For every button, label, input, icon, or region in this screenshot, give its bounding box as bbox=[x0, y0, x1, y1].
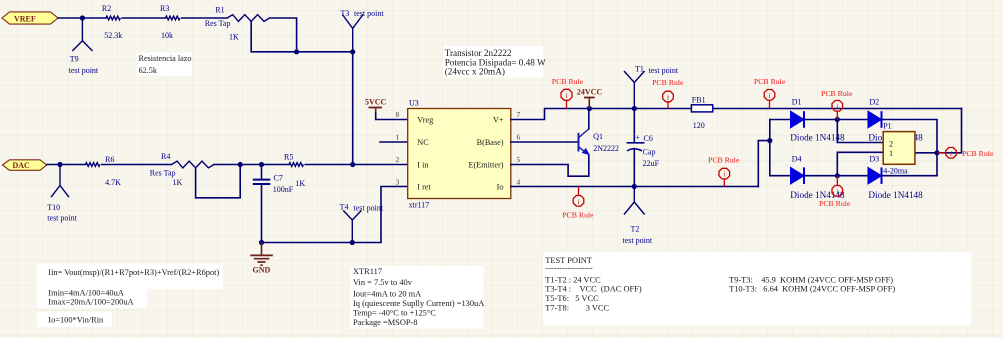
wire R5 to pin2 bbox=[305, 164, 408, 166]
svg-text:test point: test point bbox=[354, 9, 384, 18]
svg-text:test point: test point bbox=[623, 236, 653, 245]
svg-text:PCB Rule: PCB Rule bbox=[819, 199, 851, 208]
potentiometer R4 Res Tap bbox=[150, 152, 214, 187]
connector P1 4-20ma bbox=[883, 122, 915, 176]
potentiometer R1 Res Tap bbox=[205, 6, 270, 42]
test point T10 bbox=[47, 165, 77, 223]
svg-text:3: 3 bbox=[395, 177, 399, 186]
svg-text:D2: D2 bbox=[869, 97, 879, 106]
svg-text:Res Tap: Res Tap bbox=[150, 168, 176, 177]
svg-text:I in: I in bbox=[417, 160, 428, 169]
wire R2 to R3 bbox=[122, 17, 165, 19]
annotation TEST POINT block bbox=[543, 252, 971, 325]
svg-text:R6: R6 bbox=[105, 155, 114, 164]
svg-text:U3: U3 bbox=[409, 98, 419, 107]
svg-text:i: i bbox=[566, 92, 568, 100]
svg-text:Package =MSOP-8: Package =MSOP-8 bbox=[353, 318, 418, 327]
svg-text:test point: test point bbox=[69, 66, 99, 75]
wire bridge anode vertical bbox=[769, 120, 771, 176]
power 5VCC bbox=[365, 97, 408, 119]
wire Io pin4 bbox=[511, 186, 759, 188]
svg-text:Q1: Q1 bbox=[593, 132, 603, 141]
directive PCB Rule bridge top bbox=[821, 89, 853, 120]
resistor R3 bbox=[160, 4, 180, 40]
svg-text:PCB Rule: PCB Rule bbox=[754, 77, 786, 86]
svg-text:1: 1 bbox=[889, 149, 893, 158]
node bridge bottom mid junction bbox=[835, 173, 840, 178]
directive PCB Rule on Io wire bbox=[562, 187, 594, 220]
svg-text:T2: T2 bbox=[631, 224, 640, 233]
node T3 junction bbox=[350, 49, 355, 54]
svg-text:100nF: 100nF bbox=[273, 185, 294, 194]
svg-text:Vreg: Vreg bbox=[417, 115, 433, 124]
svg-text:GND: GND bbox=[253, 266, 271, 275]
svg-text:2: 2 bbox=[889, 140, 893, 149]
transistor Q1 2N2222 bbox=[579, 109, 619, 156]
svg-text:Io: Io bbox=[497, 182, 504, 191]
node 24VCC junction bbox=[587, 106, 592, 111]
svg-text:Temp= -40°C to +125°C: Temp= -40°C to +125°C bbox=[353, 309, 436, 318]
node D2/D3 cathode junction bbox=[934, 150, 939, 155]
svg-text:Res Tap: Res Tap bbox=[205, 19, 231, 28]
svg-text:i: i bbox=[667, 94, 669, 102]
svg-text:C6: C6 bbox=[644, 134, 653, 143]
node Io/C6/T2 junction bbox=[632, 184, 637, 189]
svg-text:i: i bbox=[578, 198, 580, 206]
svg-text:i: i bbox=[769, 92, 771, 100]
svg-text:T1: T1 bbox=[635, 65, 644, 74]
svg-text:T7-T8: 3 VCC: T7-T8: 3 VCC bbox=[545, 303, 609, 312]
wire ground rail bbox=[262, 187, 409, 243]
node R4 wrap junction bbox=[238, 162, 243, 167]
svg-text:Io=100*Vin/Rin: Io=100*Vin/Rin bbox=[48, 316, 104, 325]
wire D4 to D3 bbox=[804, 175, 868, 177]
svg-text:Iout=4mA to 20 mA: Iout=4mA to 20 mA bbox=[353, 289, 421, 298]
wire VREF to R2 bbox=[58, 17, 106, 19]
wire emitter pin5 bbox=[511, 156, 589, 177]
svg-text:test point: test point bbox=[649, 66, 679, 75]
node ground rail T4 bbox=[350, 240, 355, 245]
test point T4 bbox=[340, 202, 384, 242]
test point T9 bbox=[69, 18, 99, 75]
port DAC bbox=[3, 160, 47, 171]
svg-text:T3-T4 : VCC (DAC OFF): T3-T4 : VCC (DAC OFF) bbox=[545, 285, 642, 294]
svg-text:R5: R5 bbox=[284, 152, 293, 161]
svg-text:Vin = 7.5v to 40v: Vin = 7.5v to 40v bbox=[353, 278, 413, 287]
node C7 top junction bbox=[259, 162, 264, 167]
svg-text:T10: T10 bbox=[47, 203, 60, 212]
wire DAC to R6 bbox=[47, 164, 86, 166]
svg-text:test point: test point bbox=[47, 214, 77, 223]
svg-text:1K: 1K bbox=[229, 32, 239, 41]
wire Io riser to bridge bbox=[758, 141, 770, 187]
svg-text:6: 6 bbox=[517, 132, 521, 141]
svg-text:1: 1 bbox=[395, 132, 399, 141]
annotation XTR117 spec block bbox=[350, 266, 484, 329]
directive PCB Rule on rail after FB1 bbox=[754, 77, 786, 109]
wire R1 tap loop bbox=[251, 18, 296, 52]
resistor R5 bbox=[284, 152, 305, 188]
svg-text:T1-T2 : 24 VCC: T1-T2 : 24 VCC bbox=[545, 275, 601, 284]
svg-text:+: + bbox=[635, 133, 640, 142]
diode D4 1N4148 bbox=[770, 154, 845, 199]
node ground rail C7 bbox=[259, 240, 264, 245]
capacitor C6 22uF bbox=[627, 109, 660, 187]
node bridge anode junction bbox=[767, 138, 772, 143]
svg-text:XTR117: XTR117 bbox=[353, 267, 382, 276]
svg-text:D1: D1 bbox=[792, 97, 802, 106]
svg-text:Resistencia lazo: Resistencia lazo bbox=[139, 54, 192, 63]
wire R4 to C7/R5 bbox=[240, 164, 289, 166]
directive PCB Rule bridge bottom bbox=[819, 176, 851, 209]
wire R6 to R4 bbox=[102, 164, 172, 166]
svg-text:C7: C7 bbox=[274, 173, 283, 182]
svg-text:PCB Rule: PCB Rule bbox=[562, 210, 594, 219]
node VREF/T9 junction bbox=[80, 15, 85, 20]
svg-text:(24vcc x 20mA): (24vcc x 20mA) bbox=[445, 67, 505, 77]
svg-text:R4: R4 bbox=[161, 152, 170, 161]
capacitor C7 bbox=[253, 165, 294, 243]
wire summing vertical bbox=[352, 52, 354, 165]
node DAC/T10 junction bbox=[57, 162, 62, 167]
diode D2 1N4148 bbox=[868, 97, 923, 142]
svg-text:V+: V+ bbox=[493, 115, 504, 124]
svg-text:Diode 1N4148: Diode 1N4148 bbox=[868, 190, 923, 200]
svg-text:PCB Rule: PCB Rule bbox=[652, 78, 684, 87]
op-amp U3 xtr117 bbox=[395, 98, 520, 209]
svg-text:R1: R1 bbox=[215, 6, 224, 15]
diode D3 1N4148 bbox=[868, 154, 923, 199]
wire base pin6 bbox=[511, 141, 579, 143]
svg-text:P1: P1 bbox=[883, 122, 891, 131]
svg-text:5VCC: 5VCC bbox=[365, 97, 387, 106]
svg-text:PCB Rule: PCB Rule bbox=[821, 89, 853, 98]
svg-text:PCB Rule: PCB Rule bbox=[708, 155, 740, 164]
svg-text:4: 4 bbox=[517, 177, 521, 186]
test point T1 bbox=[624, 65, 679, 109]
svg-text:DAC: DAC bbox=[13, 161, 31, 170]
svg-text:R3: R3 bbox=[160, 4, 169, 13]
svg-text:R2: R2 bbox=[102, 4, 111, 13]
node T1 junction bbox=[632, 106, 637, 111]
svg-text:7: 7 bbox=[517, 110, 521, 119]
svg-text:T4: T4 bbox=[340, 202, 349, 211]
wire bridge bottom mid to P1 pin1 bbox=[837, 152, 883, 175]
svg-text:FB1: FB1 bbox=[692, 95, 706, 104]
test point T3 bbox=[341, 9, 385, 52]
svg-text:Imax=20mA/100=200uA: Imax=20mA/100=200uA bbox=[48, 298, 133, 307]
resistor R6 bbox=[86, 155, 122, 187]
svg-text:2: 2 bbox=[395, 155, 399, 164]
directive PCB Rule on Io wire mid bbox=[708, 155, 740, 186]
svg-text:I ret: I ret bbox=[417, 182, 431, 191]
svg-text:1K: 1K bbox=[295, 179, 305, 188]
annotation formulas block bbox=[37, 264, 223, 328]
port VREF bbox=[2, 12, 58, 24]
svg-text:T5-T6: 5 VCC: T5-T6: 5 VCC bbox=[545, 294, 599, 303]
diode D1 1N4148 bbox=[770, 97, 845, 142]
wire R3 to R1 bbox=[182, 17, 227, 19]
wire pin1 NC stub bbox=[380, 141, 408, 143]
svg-text:2N2222: 2N2222 bbox=[593, 144, 619, 153]
svg-text:5: 5 bbox=[517, 155, 521, 164]
svg-text:E(Emitter): E(Emitter) bbox=[468, 160, 503, 169]
node R1 wrap junction bbox=[294, 49, 299, 54]
directive PCB Rule right bbox=[937, 148, 994, 159]
svg-text:i: i bbox=[723, 171, 725, 179]
svg-text:B(Base): B(Base) bbox=[477, 138, 504, 147]
svg-text:Cap: Cap bbox=[643, 147, 656, 156]
svg-text:D3: D3 bbox=[869, 154, 879, 163]
wire D2 cathode down bbox=[882, 120, 938, 176]
wire rail right corner to P1 bbox=[915, 109, 962, 153]
svg-text:i: i bbox=[836, 188, 838, 196]
annotation Resistencia lazo bbox=[137, 53, 193, 76]
svg-text:Iq (quiescente Suplly Current): Iq (quiescente Suplly Current) =130uA bbox=[353, 299, 484, 308]
wire R4 tap loop bbox=[196, 165, 241, 198]
ferrite bead FB1 bbox=[691, 95, 712, 130]
wire rail to T3 bbox=[297, 51, 353, 53]
wire D3 cathode bbox=[882, 175, 938, 177]
test point T2 bbox=[623, 187, 653, 246]
node summing junction pin2 bbox=[350, 162, 355, 167]
svg-text:T3: T3 bbox=[341, 9, 350, 18]
svg-text:T9: T9 bbox=[70, 54, 79, 63]
svg-text:xtr117: xtr117 bbox=[409, 200, 430, 209]
svg-text:NC: NC bbox=[417, 138, 429, 147]
node bridge top mid junction bbox=[835, 117, 840, 122]
annotation transistor note bbox=[443, 46, 546, 78]
svg-text:PCB Rule: PCB Rule bbox=[962, 149, 994, 158]
svg-text:i: i bbox=[950, 150, 952, 158]
svg-text:Iin= Vout(msp)/(R1+R7pot+R3)+V: Iin= Vout(msp)/(R1+R7pot+R3)+Vref/(R2+R6… bbox=[48, 268, 219, 277]
svg-text:VREF: VREF bbox=[14, 14, 36, 23]
directive PCB Rule on V+ wire bbox=[552, 77, 584, 108]
svg-text:62.5k: 62.5k bbox=[139, 66, 158, 75]
svg-text:D4: D4 bbox=[792, 154, 802, 163]
wire bridge top mid to P1 pin2 bbox=[837, 120, 883, 143]
svg-text:1K: 1K bbox=[173, 178, 183, 187]
ground GND bbox=[250, 243, 272, 275]
svg-text:8: 8 bbox=[395, 110, 399, 119]
svg-text:52.3k: 52.3k bbox=[104, 31, 122, 40]
wire V+ rail bbox=[511, 109, 962, 120]
wire D1 to D2 bbox=[804, 119, 868, 121]
power 24VCC bbox=[577, 88, 603, 109]
svg-text:Imin=4mA/100=40uA: Imin=4mA/100=40uA bbox=[48, 288, 124, 297]
svg-text:120: 120 bbox=[693, 121, 705, 130]
svg-text:10k: 10k bbox=[161, 31, 173, 40]
svg-text:i: i bbox=[836, 103, 838, 111]
resistor R2 bbox=[102, 4, 122, 40]
svg-text:T9-T3: 45.9 KOHM (24VCC OF: T9-T3: 45.9 KOHM (24VCC OFF-MSP OFF) bbox=[729, 275, 893, 284]
svg-text:22uF: 22uF bbox=[643, 159, 660, 168]
svg-text:4-20ma: 4-20ma bbox=[883, 167, 908, 176]
directive PCB Rule on rail at T1 bbox=[652, 78, 684, 109]
svg-text:test point: test point bbox=[354, 204, 384, 213]
svg-text:PCB Rule: PCB Rule bbox=[552, 77, 584, 86]
svg-text:T10-T3: 6.64 KOHM (24VCC OF: T10-T3: 6.64 KOHM (24VCC OFF-MSP OFF) bbox=[729, 285, 895, 294]
svg-text:-----------------: ----------------- bbox=[545, 264, 593, 273]
svg-text:4.7K: 4.7K bbox=[105, 178, 121, 187]
svg-text:24VCC: 24VCC bbox=[577, 88, 603, 97]
